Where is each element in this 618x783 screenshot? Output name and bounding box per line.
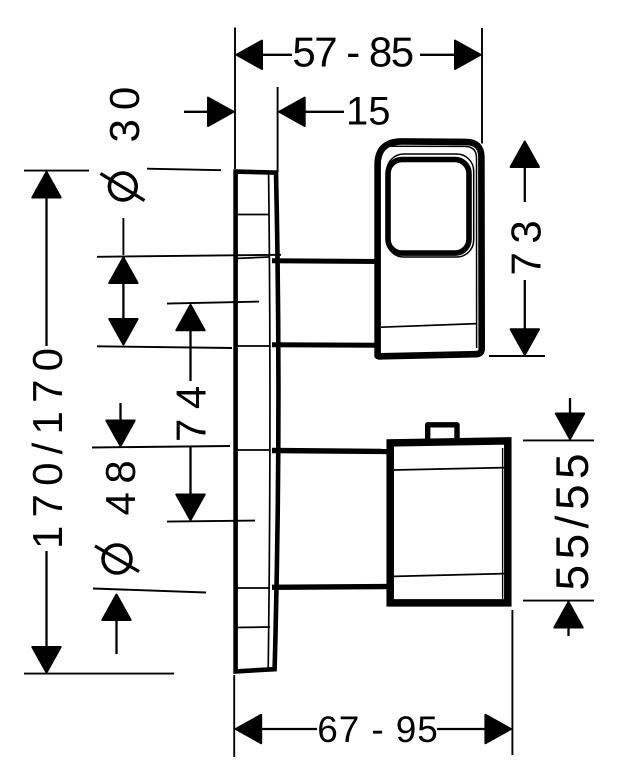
dim 170/170: [24, 169, 221, 674]
extension line left (plate left edge): [234, 28, 236, 170]
extension line bottom (upper stem bottom): [97, 346, 232, 348]
dimension line right segment: [437, 728, 495, 730]
diameter symbol circle: [103, 545, 131, 573]
dimension line left segment: [252, 728, 317, 730]
svg-text:74: 74: [168, 376, 215, 442]
tail below bottom arrow: [567, 627, 569, 636]
svg-text:15: 15: [346, 90, 391, 134]
bottom handle body: [390, 425, 508, 603]
extension line bottom: [24, 673, 174, 675]
dim 67-95: [234, 610, 512, 757]
arrow left: [236, 715, 262, 743]
dimension line right segment: [420, 54, 466, 56]
plate inner seam line top: [235, 214, 269, 216]
dimension line upper: [45, 196, 47, 346]
arrow up at handle top level: [511, 142, 539, 168]
extension line bottom (handle bottom): [489, 355, 545, 357]
upper stem (thermostat spindle): [272, 261, 378, 345]
plate inner seam line at lower stem bottom: [235, 587, 269, 589]
plate inner seam line upper stem: [235, 257, 269, 259]
arrow right: [455, 41, 481, 69]
connector line between arrows: [122, 283, 124, 319]
arrow right: [485, 715, 511, 743]
arrow up to handle bottom line: [554, 602, 582, 628]
wall plate (escutcheon) outline: [235, 172, 278, 672]
arrow down to top line: [106, 421, 134, 447]
arrow down to handle top line: [556, 414, 584, 440]
svg-text:67 - 95: 67 - 95: [317, 709, 439, 750]
arrow down: [176, 495, 204, 521]
dim 15: [184, 87, 391, 172]
svg-text:170/170: 170/170: [24, 340, 71, 549]
extension line bottom: [167, 521, 255, 522]
arrow up to bottom line: [102, 595, 130, 621]
extension line top segment a: [24, 170, 89, 172]
extension line top (lower stem top): [92, 446, 230, 448]
extension line top: [167, 302, 259, 304]
dim 74: [167, 302, 259, 522]
dimension line upper: [189, 329, 191, 381]
dim ∅48: [92, 403, 230, 654]
tail line left: [184, 111, 210, 113]
diameter symbol slash: [95, 546, 139, 572]
extension line top (upper stem top): [97, 255, 281, 257]
bottom handle lower seam: [394, 574, 504, 577]
diameter symbol circle: [109, 173, 136, 200]
svg-text:30: 30: [101, 78, 148, 143]
extension line left (plate left edge, below): [233, 675, 235, 757]
dim 55/55: [523, 398, 598, 636]
dimension line lower: [524, 280, 526, 331]
bottom handle upper seam: [394, 468, 504, 470]
dimension line left segment: [252, 54, 292, 56]
top handle ring outer thin contour: [387, 154, 474, 257]
top handle ring (opening): [388, 160, 469, 254]
extension line right (handle right edge): [481, 28, 483, 144]
arrow up: [109, 258, 137, 284]
arrow left: [237, 41, 263, 69]
svg-text:48: 48: [97, 452, 144, 516]
dimension line upper: [524, 165, 526, 202]
leader line from label: [122, 218, 124, 255]
dimension line lower: [45, 551, 47, 649]
tail above top arrow: [569, 398, 571, 415]
extension line top (bottom handle top): [523, 439, 594, 441]
arrow pointing left at right ext line: [279, 98, 305, 126]
extension line top segment b: [147, 169, 221, 171]
arrow pointing right at left ext line: [208, 98, 234, 126]
tail line right: [304, 111, 344, 113]
extension line right (plate right edge): [277, 87, 279, 172]
dim 73: [489, 142, 550, 357]
plate inner seam line at upper stem bottom: [235, 345, 269, 347]
arrow up: [176, 305, 204, 331]
arrow down: [109, 319, 137, 345]
extension line bottom (bottom handle bottom): [523, 600, 594, 602]
bottom handle inner right thin line: [502, 448, 504, 599]
plate inner seam line bottom: [235, 626, 270, 629]
top handle inner thin contour: [386, 146, 477, 348]
plate inner right edge thin line: [268, 174, 270, 670]
arrow down: [32, 647, 60, 673]
svg-text:73: 73: [503, 212, 550, 276]
lower stem: [272, 451, 390, 588]
tail line above top arrow: [119, 403, 121, 424]
plate inner seam line at lower stem top: [235, 449, 269, 451]
arrow up: [32, 172, 60, 198]
top handle outer contour: [378, 141, 482, 356]
diameter symbol slash: [101, 174, 145, 201]
svg-text:55/55: 55/55: [546, 448, 598, 591]
bottom handle top tab: [428, 425, 457, 443]
dim 57-85: [235, 28, 482, 170]
top handle bottom seam line: [381, 324, 477, 328]
svg-text:57 - 85: 57 - 85: [292, 28, 412, 75]
dim ∅30: [97, 78, 281, 348]
arrow down at handle bottom level: [511, 329, 539, 355]
extension line right (bottom handle right edge): [511, 610, 513, 755]
dimension line lower: [189, 446, 191, 496]
tail line below bottom arrow: [115, 620, 117, 654]
extension line bottom (lower stem bottom): [93, 589, 206, 593]
